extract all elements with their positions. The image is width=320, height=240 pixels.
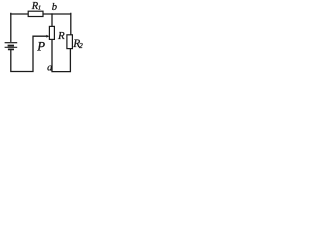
svg-text:a: a bbox=[47, 63, 52, 74]
svg-text:P: P bbox=[36, 39, 45, 53]
svg-text:b: b bbox=[52, 2, 57, 13]
svg-text:R: R bbox=[57, 30, 65, 42]
